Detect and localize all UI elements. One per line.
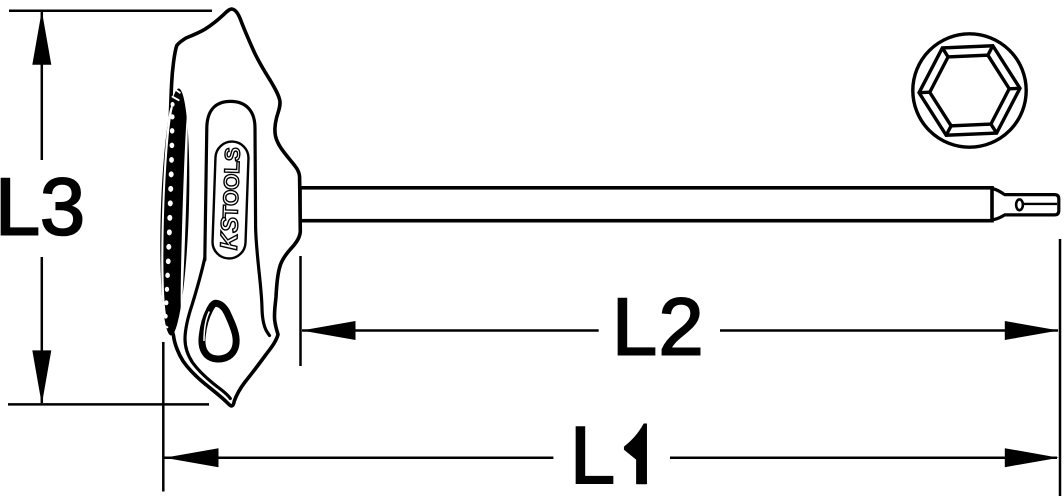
svg-text:L: L [570,411,615,501]
svg-text:KS: KS [216,216,244,250]
svg-text:TOOLS: TOOLS [219,147,244,219]
svg-text:L3: L3 [0,163,85,253]
svg-text:L2: L2 [612,283,705,373]
